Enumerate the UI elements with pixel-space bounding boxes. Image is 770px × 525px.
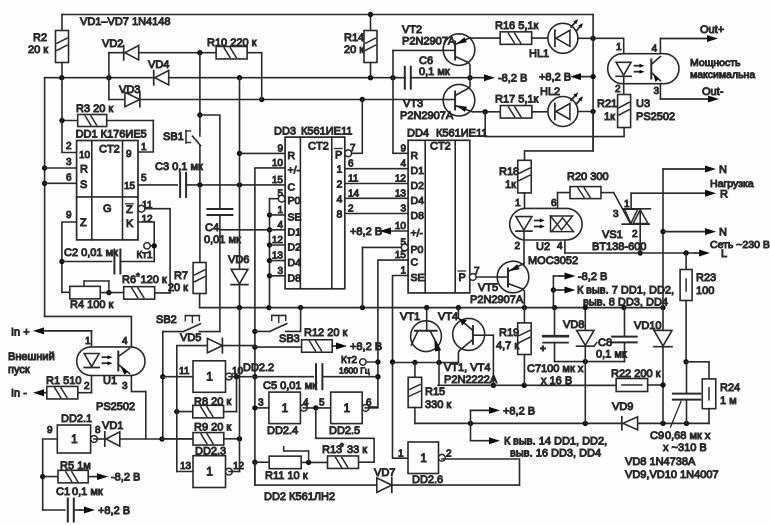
resistor R11 trimmer: [255, 461, 269, 463]
svg-text:Сеть ~230 В: Сеть ~230 В: [710, 239, 770, 251]
wire DD2.4 input: [255, 407, 269, 409]
svg-text:1: 1: [398, 449, 404, 460]
svg-text:К: К: [577, 285, 584, 297]
wire L and arrow: [565, 252, 695, 254]
svg-text:CT2: CT2: [308, 141, 329, 153]
svg-text:1к: 1к: [505, 179, 516, 191]
svg-text:P2N2907A: P2N2907A: [402, 36, 456, 48]
svg-text:20 к: 20 к: [28, 44, 48, 56]
svg-text:VD1–VD7 1N4148: VD1–VD7 1N4148: [80, 16, 171, 28]
svg-text:VT1, VT4: VT1, VT4: [444, 362, 490, 374]
arrow N output 2: [663, 231, 707, 233]
wire DD3 P to VT3 base rail: [352, 100, 363, 154]
svg-text:1: 1: [616, 42, 622, 53]
capacitor C2: [62, 261, 112, 263]
wire R10 right down: [261, 53, 263, 100]
U1 pin 4 wire: [45, 316, 132, 347]
svg-text:3: 3: [122, 381, 128, 392]
wire left vertical to R5 C1: [42, 439, 44, 510]
svg-text:К561ИЕ11: К561ИЕ11: [301, 126, 352, 138]
svg-text:VD1: VD1: [102, 420, 123, 432]
diode VD6: [231, 269, 248, 284]
optocoupler U3 PS2502: [608, 54, 679, 84]
svg-text:выв. 8 DD3, DD4: выв. 8 DD3, DD4: [583, 297, 668, 309]
diode VD7: [377, 478, 392, 492]
wires DD3 SE D1 D2 D4 D8: [270, 214, 286, 216]
svg-text:D4: D4: [411, 195, 425, 207]
wire DD4 C feed vertical: [367, 260, 409, 407]
svg-text:9: 9: [126, 149, 132, 160]
svg-text:0,1 мк: 0,1 мк: [72, 486, 103, 498]
svg-text:1: 1: [515, 198, 521, 209]
svg-text:8: 8: [337, 209, 343, 221]
svg-text:выв. 14 DD1, DD2,: выв. 14 DD1, DD2,: [513, 436, 607, 448]
svg-text:4,7 к: 4,7 к: [496, 340, 519, 352]
svg-text:выв. 7 DD1, DD2,: выв. 7 DD1, DD2,: [586, 285, 674, 297]
svg-text:VD4: VD4: [148, 59, 169, 71]
wire VT1 emitter down: [438, 351, 440, 386]
svg-text:4: 4: [122, 336, 128, 347]
svg-text:G: G: [103, 203, 112, 215]
wire DD2.2 output: [229, 376, 255, 378]
U3 pin 4 wire and Out+ arrow: [659, 39, 661, 54]
resistor R21: [618, 95, 631, 128]
diode VD4: [153, 71, 155, 85]
wire top +8.2V rail: [62, 14, 593, 16]
svg-text:PS2502: PS2502: [636, 111, 675, 123]
svg-text:1к: 1к: [604, 111, 615, 123]
svg-text:120 к: 120 к: [141, 274, 167, 286]
svg-text:R20 300: R20 300: [567, 171, 609, 183]
svg-text:0,1 мк: 0,1 мк: [596, 349, 627, 361]
svg-text:DD2 К561ЛН2: DD2 К561ЛН2: [264, 491, 335, 503]
svg-text:8: 8: [95, 425, 101, 436]
svg-text:R3 20 к: R3 20 к: [76, 103, 113, 115]
svg-text:6: 6: [366, 398, 372, 409]
svg-text:1: 1: [282, 401, 289, 415]
resistor R18: [518, 160, 532, 193]
capacitor C6: [404, 67, 406, 89]
svg-text:+8,2 В: +8,2 В: [539, 72, 571, 84]
svg-text:D2: D2: [411, 180, 425, 192]
U2 pin 2 wire to VT5: [523, 231, 525, 263]
wire VT4 base down: [485, 335, 494, 385]
svg-text:DD2.5: DD2.5: [329, 425, 360, 437]
svg-text:+8,2 В: +8,2 В: [350, 341, 382, 353]
svg-text:C2 0,01 мк: C2 0,01 мк: [64, 247, 118, 259]
capacitor C4: [207, 208, 232, 210]
svg-text:VD8: VD8: [563, 319, 584, 331]
wire VT5 emitter up to U2 pin2: [523, 263, 525, 265]
terminal Kt1: [144, 243, 150, 249]
wire bottom of caps y=361.6: [555, 361, 625, 363]
svg-text:Кт2: Кт2: [341, 355, 357, 366]
wire VS1 pin1 to R output: [630, 193, 632, 209]
svg-text:VT4: VT4: [438, 311, 458, 323]
svg-text:20 к: 20 к: [344, 44, 364, 56]
svg-text:2: 2: [84, 381, 90, 392]
svg-text:10: 10: [79, 150, 91, 161]
U3 pin 2 wire to R21: [623, 76, 625, 95]
svg-text:U1: U1: [103, 375, 117, 387]
svg-text:+/-: +/-: [411, 228, 424, 240]
svg-text:R: R: [411, 150, 419, 162]
arrow -8.2 V: [470, 77, 486, 79]
svg-text:3: 3: [613, 209, 619, 220]
optocoupler U1 PS2502: [77, 347, 145, 376]
svg-text:R18: R18: [499, 166, 519, 178]
resistor R24: [708, 362, 710, 379]
svg-text:R1 510: R1 510: [46, 375, 81, 387]
svg-text:R7: R7: [174, 270, 188, 282]
wire HL2 to +8.2 node: [578, 111, 593, 113]
svg-text:VS1: VS1: [602, 229, 623, 241]
svg-text:12: 12: [142, 214, 154, 225]
wire SB2 right to C4 bottom: [219, 230, 221, 332]
svg-text:R24: R24: [720, 382, 740, 394]
svg-text:D1: D1: [411, 165, 425, 177]
svg-text:R19: R19: [499, 327, 519, 339]
wire C4 bottom to D-chain: [220, 216, 270, 230]
resistor R8: [236, 377, 238, 412]
svg-text:SB2: SB2: [156, 314, 177, 326]
wire D-input chain vertical: [269, 199, 271, 308]
svg-text:SE: SE: [288, 211, 302, 223]
svg-text:DD2.4: DD2.4: [267, 425, 298, 437]
wire VD5 to R12: [255, 346, 302, 348]
wire DD2.4 out to R13: [316, 408, 374, 462]
wire DD1 pin S: [45, 182, 77, 184]
resistor R12: [302, 340, 333, 353]
diode VD1: [94, 438, 104, 440]
svg-text:CT2: CT2: [99, 144, 120, 156]
svg-text:HL2: HL2: [540, 86, 560, 98]
svg-text:VD9,VD10 1N4007: VD9,VD10 1N4007: [625, 469, 719, 481]
svg-text:12: 12: [395, 174, 407, 185]
wire R3 right to DD1 pin1: [138, 121, 153, 153]
svg-text:VT3: VT3: [403, 98, 423, 110]
wire bottom common rail: [200, 307, 663, 309]
capacitor C7 electrolytic: [543, 335, 568, 338]
diode VD10: [654, 330, 672, 346]
resistor R16: [470, 37, 500, 39]
wire C4 top feed: [200, 115, 220, 209]
svg-text:VT5: VT5: [478, 282, 498, 294]
arrow R output: [631, 192, 707, 194]
wire Zbar to R6: [145, 209, 170, 293]
svg-text:1: 1: [206, 465, 213, 479]
svg-text:VD8 1N4738A: VD8 1N4738A: [625, 456, 696, 468]
svg-text:R14: R14: [344, 32, 364, 44]
svg-text:R6: R6: [122, 274, 136, 286]
wire left vertical to R S: [44, 78, 46, 317]
svg-text:C5 0,01 мк: C5 0,01 мк: [263, 380, 317, 392]
wire VD6 to bottom rail: [239, 285, 241, 308]
svg-text:100 мк х: 100 мк х: [541, 363, 584, 375]
arrow +8.2V left: [579, 76, 593, 78]
svg-text:PS2502: PS2502: [96, 401, 135, 413]
svg-text:R12 20 к: R12 20 к: [304, 327, 348, 339]
resistor R22: [540, 384, 616, 386]
svg-text:R16 5,1к: R16 5,1к: [495, 20, 539, 32]
svg-text:C: C: [411, 257, 419, 269]
wire C7 feed and -8.2 vert: [554, 308, 556, 335]
wire DD2.2 input: [163, 376, 193, 378]
svg-text:5: 5: [141, 173, 147, 184]
svg-text:VD6: VD6: [228, 254, 249, 266]
transistor VT3: [443, 84, 475, 116]
diode VD5: [177, 346, 208, 377]
svg-text:R9 20 к: R9 20 к: [194, 422, 231, 434]
svg-text:13: 13: [395, 188, 407, 199]
svg-text:L: L: [721, 248, 727, 260]
inverter DD2.5: [331, 392, 363, 424]
svg-text:C8: C8: [598, 337, 612, 349]
resistor R10: [200, 52, 216, 54]
wire -8.2V rail segment mid: [169, 77, 405, 79]
svg-text:DD2.2: DD2.2: [243, 362, 274, 374]
svg-text:R11 10 к: R11 10 к: [265, 470, 308, 482]
wire VD8 down to +8.2 rail: [584, 362, 586, 424]
svg-text:N: N: [719, 227, 727, 239]
U2 pin 6 wire to R20: [558, 193, 571, 209]
wires DD3 outputs to DD4 inputs: [345, 168, 408, 170]
svg-text:DD2.1: DD2.1: [61, 413, 92, 425]
wire R2 bottom to DD1 pin2: [62, 78, 77, 153]
svg-text:C1: C1: [56, 486, 70, 498]
wire DD4 SE feed vertical: [393, 276, 409, 459]
svg-text:R21: R21: [597, 98, 617, 110]
svg-text:0,01 мк: 0,01 мк: [204, 234, 241, 246]
inverter DD2.4: [269, 392, 301, 424]
wire VD6 vertical from rail2: [239, 78, 241, 270]
resistor R2: [61, 15, 63, 31]
svg-text:1: 1: [85, 336, 91, 347]
wire N vertical: [662, 169, 664, 330]
svg-text:1600 Гц: 1600 Гц: [339, 366, 370, 376]
svg-text:SB1: SB1: [163, 131, 184, 143]
svg-text:15: 15: [272, 175, 284, 186]
svg-text:3: 3: [66, 157, 72, 168]
svg-text:P: P: [335, 150, 342, 162]
svg-text:VD3: VD3: [119, 84, 140, 96]
svg-text:Мощность: Мощность: [690, 57, 741, 69]
wire R18 to U2 pin1: [524, 193, 526, 217]
svg-text:P2N2222A: P2N2222A: [444, 374, 498, 386]
svg-text:C: C: [288, 181, 296, 193]
svg-text:R: R: [80, 164, 88, 176]
svg-text:Out+: Out+: [700, 24, 724, 36]
transistor VT1: [411, 321, 442, 352]
capacitor C1: [43, 509, 65, 511]
U3 pin 3 wire and Out- arrow: [659, 84, 661, 99]
inverter DD2.6: [408, 442, 439, 474]
svg-text:2: 2: [446, 449, 452, 460]
wire to VD7: [255, 462, 377, 485]
wire DD3 R feed: [240, 152, 286, 154]
svg-text:P: P: [459, 272, 466, 284]
svg-text:R10 220 к: R10 220 к: [207, 37, 257, 49]
wire VS1 pin2 down to L wire: [639, 210, 641, 253]
svg-text:U2: U2: [536, 241, 550, 253]
wire -8.2V and K vyv arrows block: [552, 276, 554, 308]
IC DD3 K561IE11 counter box: [285, 137, 345, 289]
svg-text:5: 5: [319, 398, 325, 409]
svg-text:K: K: [126, 218, 134, 230]
svg-text:R4 100 к: R4 100 к: [70, 299, 114, 311]
svg-text:+/-: +/-: [288, 164, 301, 176]
resistor R1: [42, 392, 47, 394]
svg-text:6: 6: [66, 173, 72, 184]
wire DD3 +/- feed: [255, 168, 285, 485]
arrow In+ and wire to U1 pin1: [42, 330, 92, 332]
wire DD2.4 to DD2.5: [303, 407, 330, 409]
wire +8.2 node down to R18: [525, 112, 594, 161]
svg-text:1 м: 1 м: [720, 395, 737, 407]
svg-text:100: 100: [696, 285, 714, 297]
svg-text:+: +: [540, 344, 546, 355]
svg-text:максимальна: максимальна: [690, 69, 755, 81]
wire -8.2V rail segment right: [411, 77, 470, 79]
svg-text:4: 4: [337, 193, 343, 205]
resistor R19: [523, 308, 525, 323]
svg-text:VD10: VD10: [634, 320, 662, 332]
diode VD9 on +8.2 rail: [621, 417, 623, 430]
arrow N output top: [663, 168, 707, 170]
DD2.3 output wire: [229, 471, 240, 473]
svg-text:SE: SE: [411, 272, 425, 284]
DD2.1 pin 9 wire: [43, 438, 58, 440]
diode VD3: [109, 99, 125, 101]
svg-text:Z: Z: [80, 217, 87, 229]
svg-text:VD9: VD9: [612, 401, 633, 413]
svg-text:4: 4: [303, 398, 309, 409]
wire base-emitter y=362.5: [393, 362, 459, 364]
U1 pin 2 wire: [91, 376, 93, 393]
svg-text:MOC3052: MOC3052: [528, 255, 578, 267]
DD1 pin K wire to Kt1: [138, 222, 154, 262]
resistor R6: [109, 292, 124, 294]
arrow K vyv 14 label: [470, 423, 472, 440]
svg-text:N: N: [719, 164, 727, 176]
svg-text:пуск: пуск: [8, 364, 30, 376]
svg-text:9: 9: [277, 143, 283, 154]
svg-text:1: 1: [624, 199, 630, 210]
svg-text:13: 13: [180, 461, 192, 472]
svg-text:R23: R23: [696, 272, 716, 284]
svg-text:*: *: [136, 272, 140, 283]
svg-text:VD7: VD7: [374, 467, 395, 479]
svg-text:R5 1м: R5 1м: [60, 460, 91, 472]
resistor R7: [199, 185, 201, 262]
svg-text:-8,2 В: -8,2 В: [111, 472, 140, 484]
resistor R3: [62, 120, 78, 122]
svg-text:HL1: HL1: [529, 48, 549, 60]
IC DD4 K561IE11 counter box: [408, 140, 470, 293]
DD4 P0 bubble and wire: [401, 244, 408, 251]
svg-text:D2: D2: [288, 242, 302, 254]
svg-text:Нагрузка: Нагрузка: [710, 178, 754, 190]
U3 pin 1 wire: [593, 38, 624, 53]
optocoupler U2 MOC3052: [510, 208, 582, 240]
wire DD4 R feed from rail2: [393, 78, 408, 154]
transistor VT2: [443, 34, 475, 66]
svg-text:4: 4: [652, 44, 658, 55]
svg-text:6: 6: [551, 198, 557, 209]
wire right vertical x=593: [592, 15, 594, 151]
IC DD1 K176IE5 counter box: [77, 141, 138, 240]
svg-text:DD3: DD3: [274, 126, 296, 138]
wire DD4 P to VT5: [476, 276, 497, 278]
resistor R14: [370, 15, 372, 31]
svg-text:К561ИЕ11: К561ИЕ11: [436, 128, 487, 140]
svg-text:2: 2: [66, 141, 72, 152]
switch SB2: [163, 331, 184, 333]
svg-text:DD4: DD4: [407, 128, 429, 140]
svg-text:C4: C4: [205, 222, 219, 234]
svg-text:SB3: SB3: [279, 333, 300, 345]
svg-text:330 к: 330 к: [425, 399, 451, 411]
wire R23 node to R24: [683, 359, 688, 364]
svg-text:4: 4: [400, 159, 406, 170]
capacitor C9: [686, 362, 688, 393]
svg-text:-8,2 В: -8,2 В: [498, 73, 527, 85]
LED HL2: [548, 97, 578, 127]
arrow +8.2V label: [470, 410, 472, 423]
wire VT4 emitter to rail: [457, 308, 459, 319]
svg-text:C3 0,1 мк: C3 0,1 мк: [155, 161, 203, 173]
svg-text:C9: C9: [650, 430, 664, 442]
svg-text:11: 11: [179, 366, 190, 377]
svg-text:выв. 16 DD3, DD4: выв. 16 DD3, DD4: [510, 448, 601, 460]
DD3 P0 bubble and feed: [278, 195, 285, 202]
svg-text:33 к: 33 к: [347, 444, 367, 456]
svg-text:R8 20 к: R8 20 к: [194, 396, 231, 408]
U2 triac symbol: [551, 216, 573, 230]
arrow +8.2V to DD4 +/-: [391, 230, 408, 232]
svg-text:1: 1: [141, 142, 147, 153]
svg-text:3: 3: [400, 204, 406, 215]
resistor R9: [162, 438, 193, 440]
wire DD4 P0 down to rail: [362, 247, 364, 307]
resistor R20: [570, 187, 601, 199]
resistor R15: [414, 363, 416, 378]
DD1 pin Z wire: [62, 222, 77, 292]
wire VT2 base from rail2: [392, 50, 394, 77]
wire emitter rail y=385.3: [438, 384, 616, 386]
U2 pin 4 wire to L: [564, 240, 566, 253]
svg-text:2: 2: [615, 84, 621, 95]
svg-text:15: 15: [124, 181, 136, 192]
svg-text:In +: In +: [11, 327, 30, 339]
svg-text:CT2: CT2: [430, 141, 451, 153]
svg-text:1: 1: [206, 370, 213, 384]
svg-text:P0: P0: [288, 195, 301, 207]
svg-text:D8: D8: [411, 210, 425, 222]
DD3 P output bubble: [345, 150, 352, 157]
switch SB3: [255, 330, 270, 332]
svg-text:+8,2 В: +8,2 В: [98, 505, 130, 517]
svg-text:4: 4: [557, 241, 563, 252]
svg-text:Z: Z: [126, 204, 133, 216]
svg-text:20 к: 20 к: [168, 282, 188, 294]
switch SB1: [199, 53, 201, 129]
svg-text:S: S: [80, 179, 87, 191]
wire VT3 emitter to R21 bottom: [485, 112, 624, 137]
svg-text:*: *: [340, 442, 344, 453]
svg-text:9: 9: [66, 210, 72, 221]
svg-text:R2: R2: [33, 32, 47, 44]
